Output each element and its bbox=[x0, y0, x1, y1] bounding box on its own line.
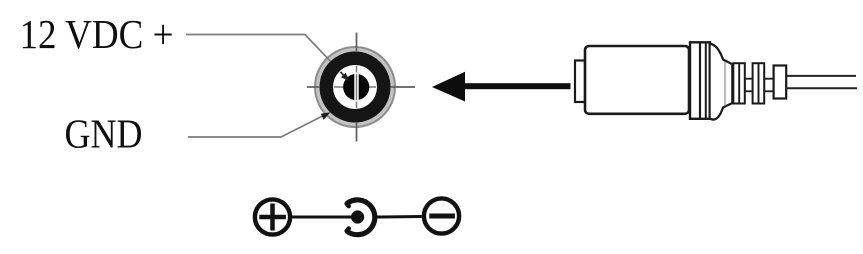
plug bell taper bbox=[710, 44, 733, 120]
bell shading line bbox=[724, 62, 726, 106]
strain relief rib group 1 bbox=[733, 63, 745, 103]
arrowhead on GND leader bbox=[321, 112, 331, 120]
cable top line bbox=[787, 75, 857, 77]
leader line from 12 VDC + to center pin bbox=[186, 35, 331, 62]
crosshair left segment bbox=[307, 86, 320, 88]
strain relief mid bar 2 bbox=[764, 79, 773, 92]
svg-text:GND: GND bbox=[65, 111, 143, 157]
strain relief rib group 2 bbox=[753, 63, 765, 103]
arrowhead on 12 VDC leader bbox=[341, 73, 350, 82]
strain relief mid bar 1 bbox=[745, 79, 753, 92]
pin slot bbox=[354, 73, 358, 102]
polarity wire C to minus bbox=[377, 215, 422, 219]
jack black barrel ring bbox=[320, 52, 391, 123]
polarity center dot bbox=[351, 210, 364, 223]
big arrow shaft bbox=[463, 83, 571, 89]
crosshair through pin slot bbox=[356, 74, 358, 100]
jack inner white area bbox=[333, 65, 377, 109]
plug tip bbox=[575, 61, 585, 103]
crosshair bottom segment bbox=[356, 122, 358, 142]
strain relief end rib bbox=[774, 66, 787, 99]
crosshair top segment bbox=[356, 33, 358, 53]
crosshair over inner area bbox=[334, 86, 376, 88]
plug collar bbox=[690, 42, 710, 119]
polarity wire plus to dot bbox=[292, 216, 352, 219]
leader line from GND to barrel bbox=[188, 115, 325, 137]
polarity minus circle bbox=[424, 198, 459, 233]
crosshair right segment bbox=[390, 86, 415, 88]
jack outer gray ring bbox=[314, 46, 396, 128]
polarity barrel C arc bbox=[347, 200, 375, 235]
polarity minus sign bbox=[429, 214, 455, 219]
plug body bbox=[585, 46, 689, 114]
cable bottom line bbox=[787, 87, 858, 89]
svg-text:12 VDC +: 12 VDC + bbox=[20, 11, 174, 57]
jack center pin bbox=[343, 74, 369, 100]
polarity plus circle bbox=[255, 199, 290, 234]
polarity plus sign bbox=[259, 215, 286, 220]
collar ring line 1 bbox=[699, 43, 701, 119]
collar ring line 2 bbox=[705, 43, 707, 119]
big arrow head bbox=[432, 72, 465, 102]
